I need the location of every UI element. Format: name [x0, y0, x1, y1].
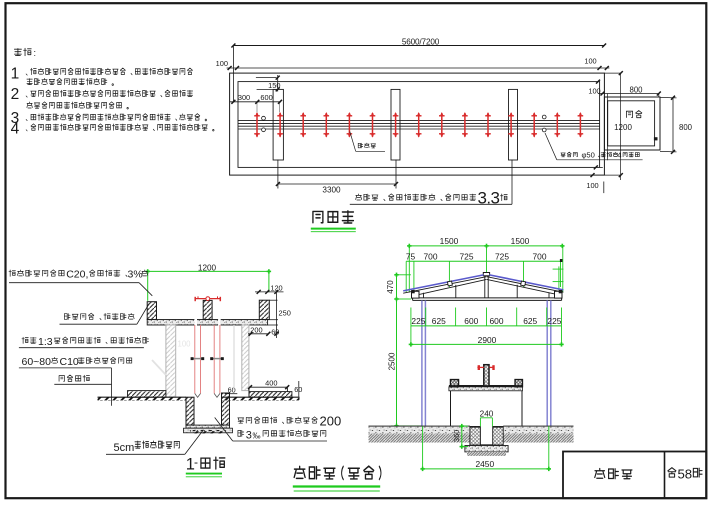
- section: right block extension lines: [269, 299, 277, 301]
- elevation: roof blue sheeting: [403, 275, 483, 291]
- svg-text:700: 700: [424, 252, 438, 262]
- section: right rim block: [259, 300, 269, 319]
- plan: tap stems to dimension line: [256, 102, 258, 113]
- svg-text:1200: 1200: [614, 123, 632, 132]
- svg-text:C20,: C20,: [66, 269, 88, 281]
- svg-text:60~80: 60~80: [22, 356, 52, 368]
- svg-text:800: 800: [629, 85, 643, 94]
- svg-text:240: 240: [480, 410, 494, 419]
- svg-text:2500: 2500: [387, 352, 396, 370]
- svg-text:100: 100: [586, 181, 598, 190]
- section: label 砖砌1:3水泥砂浆抹灰，瓷砖贴外侧: [22, 337, 36, 343]
- elevation: counter slab: [449, 387, 523, 391]
- elevation: rim end blocks: [450, 380, 458, 387]
- plan: pool top dim 800: [598, 93, 659, 95]
- section: pit base layer: [184, 428, 233, 433]
- svg-text:100: 100: [584, 56, 596, 65]
- plan: dims 300 600: [230, 101, 281, 103]
- svg-text:600: 600: [260, 93, 272, 102]
- svg-text:100: 100: [178, 340, 192, 349]
- svg-text:3%: 3%: [128, 269, 143, 281]
- elevation: dim row 1500 1500: [409, 245, 562, 247]
- svg-text:2450: 2450: [475, 459, 494, 469]
- svg-text:200: 200: [320, 414, 342, 429]
- svg-text:1: 1: [11, 65, 20, 82]
- svg-text:C10: C10: [60, 356, 79, 368]
- section: left step: [128, 391, 166, 398]
- plan: water supply pipe lines: [238, 120, 600, 122]
- elevation: dim row 75 700 725 725 700: [406, 260, 561, 262]
- section: central tap symbol: [195, 298, 222, 300]
- svg-text:470: 470: [386, 280, 395, 294]
- svg-text:3.3: 3.3: [478, 188, 500, 207]
- plan: wall note leader: [511, 160, 513, 205]
- plan: partition wall 1: [273, 89, 283, 160]
- section: label 砖砌水槽,瓷砖贴面: [64, 313, 134, 319]
- plan: faucet label 水龙头: [350, 132, 356, 152]
- svg-text:1200: 1200: [198, 264, 217, 273]
- svg-text:225: 225: [411, 316, 425, 326]
- section: left wall: [166, 325, 176, 397]
- notes heading 说明：: [14, 48, 31, 55]
- section: dim 250: [275, 292, 277, 338]
- svg-text:4: 4: [11, 121, 20, 138]
- section: 1200 green dimension: [148, 270, 269, 272]
- elevation: pit base slab: [465, 446, 508, 452]
- elevation: ground band: [369, 425, 470, 427]
- plan: pool right dim 800: [672, 98, 674, 152]
- svg-text:100: 100: [588, 87, 600, 96]
- elevation: dim 2900: [411, 343, 562, 345]
- svg-text:200: 200: [250, 325, 262, 334]
- plan: inner trough rectangle: [238, 82, 600, 168]
- svg-text:75: 75: [406, 252, 416, 262]
- elevation: purlin blocks: [447, 281, 452, 286]
- svg-text:2: 2: [11, 86, 20, 103]
- plan: pool drain square: [654, 137, 658, 140]
- section: right step: [249, 386, 287, 388]
- svg-text:100: 100: [216, 59, 228, 68]
- svg-text::: :: [34, 48, 37, 58]
- elevation: roof right mini dims: [558, 266, 560, 290]
- svg-text:60: 60: [294, 385, 302, 394]
- section: counter slab: [147, 320, 267, 326]
- svg-text:600: 600: [490, 316, 504, 326]
- plan: drain note 下水孔 φ50，每间隔 4米一个: [545, 133, 557, 160]
- section: drain pipes: [194, 325, 196, 394]
- plan: bottom right marks: [600, 166, 603, 168]
- svg-text:5cm: 5cm: [114, 442, 135, 454]
- plan: title 平面图: [313, 211, 353, 223]
- section: valves: [192, 358, 204, 360]
- plan: overall dimension 5600/7200: [233, 45, 604, 47]
- svg-text:φ50: φ50: [582, 151, 595, 160]
- svg-text:‰: ‰: [253, 431, 261, 440]
- section: ground lines with hatch: [98, 396, 187, 398]
- elevation: caption 洗漱槽（双面）: [294, 466, 335, 479]
- svg-text:4: 4: [617, 151, 621, 160]
- section: dim 200: [248, 333, 268, 335]
- plan: 100 dimension chain line: [227, 67, 610, 69]
- svg-text:3: 3: [246, 429, 252, 441]
- section: right wall: [242, 325, 249, 391]
- svg-text:625: 625: [432, 316, 446, 326]
- section: center post: [203, 300, 212, 319]
- svg-text:800: 800: [679, 123, 693, 132]
- plan: water pool outer: [604, 97, 660, 150]
- svg-text:700: 700: [533, 252, 547, 262]
- plan: pool label 水池: [626, 111, 641, 118]
- plan: wall note 砖砌墙，水泥砂浆抹面，中间墙间距3.3米: [356, 194, 476, 201]
- section: label 素土夯实: [59, 375, 89, 381]
- section: left rim block: [147, 302, 156, 320]
- plan: faucet symbols (15 taps): [254, 112, 260, 138]
- plan: partition wall 3: [509, 89, 518, 160]
- svg-text:58: 58: [677, 467, 692, 482]
- elevation: rafter lines: [403, 277, 486, 294]
- svg-text:2900: 2900: [478, 335, 497, 345]
- elevation: roof ridge block: [483, 273, 489, 276]
- plan: drain holes right: [542, 115, 546, 119]
- svg-text:360: 360: [452, 430, 461, 443]
- svg-text:625: 625: [523, 316, 537, 326]
- elevation: center post: [484, 365, 489, 386]
- svg-text:1:3: 1:3: [38, 336, 53, 348]
- elevation: king post: [484, 276, 486, 298]
- svg-text:300: 300: [238, 93, 250, 102]
- section: label 人工自拌混凝土C20,瓷砖贴面，3%坡: [9, 270, 64, 276]
- page number 第58页: [668, 468, 676, 477]
- svg-text:150: 150: [268, 81, 280, 90]
- plan: partition wall 2: [391, 89, 400, 160]
- plan: right extension lines: [604, 72, 620, 74]
- svg-text:725: 725: [460, 252, 474, 262]
- plan: outer wall rectangle: [230, 73, 605, 175]
- elevation: eave blocks: [412, 291, 420, 298]
- svg-text:60: 60: [271, 327, 279, 336]
- plan: water pool inner: [608, 101, 655, 146]
- svg-text:600: 600: [464, 316, 478, 326]
- svg-text:5600/7200: 5600/7200: [402, 37, 440, 46]
- section: label 砖砌排水沟，沟起端深200 按3‰放坡水泥砂浆抹面: [238, 417, 318, 424]
- section: dim 120: [255, 291, 284, 293]
- section: pit bottom slab: [186, 425, 230, 428]
- section: drain pit walls: [186, 397, 194, 425]
- svg-text:1500: 1500: [511, 236, 530, 246]
- section: watermark remnant: [178, 340, 192, 349]
- elevation: dim 2450: [423, 468, 549, 470]
- plan: 3300 dimension: [277, 160, 279, 189]
- svg-text:-: -: [194, 455, 198, 469]
- elevation: dim 360: [461, 426, 463, 448]
- elevation: dim 2500: [396, 299, 398, 426]
- plan: wall thickness dim 150: [256, 77, 277, 79]
- svg-text:250: 250: [279, 308, 291, 317]
- elevation: drain pit: [470, 427, 481, 446]
- svg-text:1500: 1500: [440, 236, 459, 246]
- svg-text:725: 725: [495, 252, 509, 262]
- svg-text:225: 225: [547, 316, 561, 326]
- elevation: bottom chord: [413, 297, 562, 299]
- elevation: columns: [421, 300, 423, 426]
- elevation: trough body: [450, 391, 452, 426]
- title block box: [563, 452, 706, 499]
- svg-text:400: 400: [265, 378, 277, 387]
- section: step dim 400: [248, 385, 252, 389]
- title text 洗漱槽: [595, 469, 632, 479]
- elevation: dim row 225 625 600 600 625 225: [411, 325, 562, 327]
- elevation: dim 470: [395, 274, 411, 276]
- svg-text:3300: 3300: [322, 186, 341, 195]
- elevation: taps red: [477, 366, 484, 368]
- plan: drain holes left: [262, 116, 266, 120]
- elevation: truss struts: [455, 285, 457, 298]
